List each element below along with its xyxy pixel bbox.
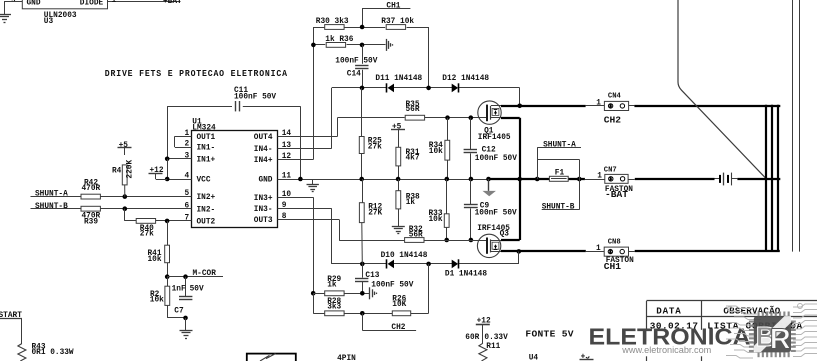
node R36 left (311, 43, 316, 48)
node F1 left (535, 177, 540, 182)
svg-text:C14: C14 (347, 70, 361, 78)
resistor R26 10K (392, 295, 410, 315)
svg-text:D11 1N4148: D11 1N4148 (375, 75, 422, 83)
svg-text:OUT2: OUT2 (197, 218, 216, 226)
resistor R37 10k (381, 18, 414, 29)
resistor R42 470R (81, 180, 101, 200)
svg-text:100nF 50V: 100nF 50V (335, 58, 377, 66)
node pin4/+12 (165, 177, 170, 182)
wire R29 line (313, 293, 370, 295)
net label M-COR (193, 270, 217, 278)
svg-text:6: 6 (185, 202, 190, 210)
wire R36 row (313, 44, 385, 46)
svg-text:DIODE: DIODE (80, 0, 104, 8)
logo chip traces (726, 304, 817, 359)
label 30.02.17 (650, 321, 699, 332)
resistor R33 10k (429, 179, 450, 227)
svg-text:470R: 470R (82, 185, 101, 193)
label -BAT (605, 189, 628, 200)
wire CN4 stubs (586, 105, 635, 107)
svg-text:1: 1 (112, 0, 117, 5)
svg-text:4k7: 4k7 (406, 155, 420, 163)
wire START down (21, 318, 23, 343)
node pin7/R41 (165, 219, 170, 224)
wire D12 down to CH2 line (519, 88, 521, 105)
svg-text:R4: R4 (112, 168, 122, 176)
svg-text:1k: 1k (406, 199, 416, 207)
svg-text:100nF 50V: 100nF 50V (475, 209, 517, 217)
ground (C13, sideways) (370, 287, 377, 299)
svg-text:-BAT: -BAT (605, 189, 628, 200)
svg-text:FONTE 5V: FONTE 5V (525, 329, 573, 340)
svg-text:3k3: 3k3 (327, 304, 341, 312)
node M-COR left (165, 274, 170, 279)
svg-text:U3: U3 (44, 18, 54, 26)
svg-text:VCC: VCC (197, 177, 211, 185)
logo chip legs (749, 312, 796, 358)
wire pin3 (167, 158, 191, 160)
resistor R43 0R1 0.33W (zigzag) (18, 344, 74, 361)
svg-text:+5: +5 (392, 124, 402, 132)
wire Q1 source (thick) (501, 118, 520, 179)
svg-text:27k: 27k (368, 144, 382, 152)
node R25/GND (359, 177, 364, 182)
net label SHUNT-B (35, 203, 68, 211)
wire CN7 stub (585, 179, 635, 181)
wire R25 bottom to GND line (361, 154, 363, 180)
resistor R32 56R (405, 226, 424, 242)
wire R37 right down to D11/D12 node (428, 27, 430, 88)
svg-text:IN4-: IN4- (254, 146, 273, 154)
ground (pin11) (307, 179, 319, 192)
label 4PIN (337, 355, 356, 361)
svg-text:100nF 50V: 100nF 50V (475, 155, 517, 163)
net label SHUNT-A (35, 191, 68, 199)
svg-text:3: 3 (185, 152, 190, 160)
U1 left pin numbers (185, 130, 190, 222)
svg-text:IN2-: IN2- (197, 206, 216, 214)
svg-text:SHUNT-A: SHUNT-A (35, 191, 68, 199)
capacitor C7 1nF 50V (172, 277, 204, 316)
logo chip square (754, 316, 791, 352)
node C7/R2 bottom (183, 316, 188, 321)
wire R26 up to D1 line (411, 264, 429, 314)
wire pin11 GND line (thin part) (278, 179, 488, 181)
logo background (585, 330, 752, 357)
node R12/C13/D10 (360, 262, 365, 267)
wire R28 to R26 (344, 313, 392, 315)
label LISTA CORRIGIDA (707, 321, 803, 332)
wire +5 to R31 (398, 130, 400, 147)
resistor R29 1k (325, 276, 344, 295)
wire CH2 stub (362, 313, 416, 330)
svg-text:R11: R11 (486, 343, 500, 351)
wire pin10 down (278, 197, 314, 293)
label U4 (529, 355, 539, 361)
node R31/GND (396, 177, 401, 182)
svg-text:IRF1405: IRF1405 (478, 134, 511, 142)
wire shunt loop (537, 148, 579, 210)
label OBSERVACAO (723, 306, 780, 317)
svg-text:R30 3k3: R30 3k3 (316, 18, 349, 26)
svg-text:1nF: 1nF (172, 285, 186, 293)
net label START (0, 312, 22, 320)
svg-text:SHUNT-B: SHUNT-B (542, 204, 575, 212)
diode D11 1N4148 (375, 75, 422, 92)
svg-text:56R: 56R (406, 106, 420, 114)
wire CN8 stub (586, 251, 635, 253)
ground (R38) (392, 227, 405, 234)
logo BR text (756, 321, 791, 355)
wire pin4 VCC (167, 179, 191, 181)
svg-text:50V: 50V (190, 285, 204, 293)
svg-text:0R1 0.33W: 0R1 0.33W (32, 349, 74, 357)
svg-text:IN2+: IN2+ (197, 194, 216, 202)
resistor R12 27K (359, 179, 382, 223)
wire pin14 to Q1 gate line (278, 118, 405, 137)
label FONTE 5V (525, 329, 573, 340)
node pin5/R44 (123, 194, 128, 199)
label FASTON (CN8) (606, 257, 634, 265)
svg-text:IN1+: IN1+ (197, 156, 216, 164)
svg-text:+BAT: +BAT (163, 0, 182, 6)
svg-text:CH1: CH1 (604, 261, 622, 272)
resistor R44 220K (112, 160, 134, 185)
svg-text:56R: 56R (409, 232, 423, 240)
svg-text:R37 10k: R37 10k (381, 18, 414, 26)
wire pin7 node down to R41 (167, 221, 169, 245)
IC U3 ULN2003 (partial, cut at top) (11, 0, 108, 26)
wire CH1 down to R30/R37 node (362, 8, 364, 27)
net label +12 (R11) (476, 318, 491, 326)
svg-text:CH2: CH2 (604, 115, 622, 126)
logo www text (621, 345, 711, 355)
svg-text:CN4: CN4 (608, 92, 622, 100)
battery symbol (715, 173, 738, 186)
wire off-page diagonal (678, 0, 767, 179)
svg-text:DATA: DATA (656, 306, 681, 317)
title block table (647, 301, 817, 361)
svg-text:100nF 50V: 100nF 50V (371, 282, 413, 290)
svg-text:OUT4: OUT4 (254, 134, 273, 142)
resistor R35 56R (405, 101, 424, 120)
wire C13 to R29 line (362, 282, 364, 294)
svg-text:U4: U4 (529, 355, 539, 361)
node R26/D10/D1 (426, 262, 431, 267)
svg-text:CN7: CN7 (604, 167, 617, 175)
node pin10/R29 (311, 291, 316, 296)
wire GND/-BAT line (thick) (488, 178, 780, 180)
node gnd stub (486, 177, 491, 182)
svg-text:+5: +5 (119, 142, 129, 150)
svg-text:IN3+: IN3+ (254, 195, 273, 203)
node C12/GND (469, 177, 474, 182)
svg-text:IN3-: IN3- (254, 206, 273, 214)
transistor Q1 IRF1405 (478, 101, 511, 142)
node C14/D11 junction (360, 86, 365, 91)
svg-text:27k: 27k (140, 231, 154, 239)
svg-text:M-COR: M-COR (193, 270, 217, 278)
resistor R2 10k (150, 277, 170, 306)
wire R44 to pin5 node (124, 185, 126, 197)
diode D1 1N4148 (445, 259, 487, 278)
op-amp U1 LM324 box (192, 119, 278, 228)
svg-text:GND: GND (258, 177, 272, 185)
svg-text:Q3: Q3 (500, 230, 510, 238)
title text (105, 68, 288, 79)
wire C11 left (167, 106, 232, 159)
svg-text:10K: 10K (392, 301, 406, 309)
connector CN8 (596, 239, 629, 257)
node C13/R29 (360, 291, 365, 296)
svg-text:9: 9 (11, 0, 16, 5)
net label CH1 (top) (362, 2, 410, 10)
resistor R40 27k (136, 219, 155, 239)
node D12/CH2 (517, 104, 522, 109)
fuse F1 (549, 170, 568, 182)
wire Q1 drain CH2 (thick) (501, 105, 586, 107)
svg-text:7: 7 (185, 214, 190, 222)
wire C9 to gate2 (470, 208, 472, 240)
svg-text:10k: 10k (429, 148, 443, 156)
wire +12 stub to VCC (156, 173, 168, 180)
svg-text:R39: R39 (84, 218, 98, 226)
wire C14 to D11/D12 line (362, 70, 364, 88)
wire +5 to R44 (124, 148, 126, 155)
svg-text:R: R (770, 323, 791, 355)
resistor R28 3k3 (325, 298, 344, 316)
capacitor C13 100nF 50V (355, 264, 414, 290)
wire pin9 down to D10 (278, 208, 332, 264)
wire down to ground (C7) (185, 318, 187, 330)
svg-text:F1: F1 (555, 170, 565, 178)
label CH1 (connector) (604, 261, 622, 272)
wire pin6 node down to R40 (125, 209, 137, 221)
resistor R41 10k (148, 245, 170, 264)
logo ELETRONICA text (589, 324, 751, 350)
wire M-COR line (167, 276, 223, 278)
wire R34 to GND line (447, 160, 449, 179)
capacitor C14 100nF 50V (335, 58, 377, 79)
wire R33 to gate2 (446, 227, 448, 240)
node gate/R34 (445, 115, 450, 120)
svg-text:D12 1N4148: D12 1N4148 (442, 75, 489, 83)
wire SHUNT-B to pin6 (31, 208, 192, 210)
wire Q3 source CH1 (thick) (501, 250, 586, 252)
ground (U3) (0, 15, 11, 23)
svg-text:C12: C12 (482, 146, 496, 154)
node pin3/C11 (165, 157, 170, 162)
svg-text:CH2: CH2 (391, 324, 405, 332)
resistor R38 1k (396, 179, 420, 209)
resistor R25 27k (359, 88, 382, 154)
ground (R36, sideways) (387, 39, 393, 51)
label FASTON (CN7) (605, 186, 633, 194)
wire pin1-pin2 feedback (175, 136, 192, 147)
wire R32 to Q3 gate (424, 240, 486, 242)
wire CN8 to bus (thick) (635, 250, 780, 252)
wire C12 to GND line (470, 153, 472, 179)
svg-text:C13: C13 (365, 272, 379, 280)
svg-text:C7: C7 (174, 308, 184, 316)
node pin6/R40 (123, 206, 128, 211)
net label +BAT (163, 0, 182, 6)
capacitor C9 100nF 50V (464, 179, 517, 217)
svg-text:10k: 10k (429, 216, 443, 224)
wire pin10 col to R28 (313, 293, 324, 313)
label CH2 (connector) (604, 115, 622, 126)
wire R38 to ground (398, 209, 400, 226)
wire +12 down to R11 (482, 324, 484, 343)
svg-text:OUT1: OUT1 (197, 134, 216, 142)
connector CN7 (597, 167, 628, 184)
wire U3 right pin to +BAT (108, 0, 181, 5)
svg-text:IN4+: IN4+ (254, 157, 273, 165)
wire R36 node down to C14 (362, 45, 364, 64)
svg-text:1: 1 (596, 99, 601, 107)
U1 left pin names (197, 134, 216, 226)
svg-text:1k: 1k (327, 282, 337, 290)
bus vertical 1 (thick) (765, 105, 767, 252)
svg-text:DRIVE FETS E PROTECAO ELETRONI: DRIVE FETS E PROTECAO ELETRONICA (105, 68, 288, 79)
node F1 right (577, 177, 582, 182)
wire D11/D12 line (332, 87, 520, 89)
net label +5 (R44) (118, 142, 132, 150)
U1 right pin numbers (282, 130, 292, 221)
wire R30 row (313, 27, 428, 29)
svg-text:10k: 10k (150, 297, 164, 305)
svg-text:CN8: CN8 (608, 239, 621, 247)
wire R2 bottom (167, 305, 185, 318)
wire D10/D1 line (332, 251, 519, 264)
svg-text:GND: GND (27, 0, 41, 8)
wire R12 to D10 line (361, 223, 364, 264)
wire pin12 (278, 159, 314, 161)
node R36 right / C14 top (360, 43, 365, 48)
label DATA (656, 306, 681, 317)
svg-text:100nF 50V: 100nF 50V (234, 94, 276, 102)
connector CN4 (596, 92, 628, 110)
wire R41 to M-COR (167, 263, 169, 277)
net label +12 (VCC) (149, 167, 164, 175)
svg-text:220K: 220K (126, 160, 134, 179)
wire Q3 drain (thick) (501, 179, 520, 240)
net label SHUNT-A (fuse) (537, 141, 581, 149)
wire CN4 to bus (thick) (634, 105, 780, 107)
wire pin13 to D11 (278, 148, 332, 150)
net label CH2 (stub) (391, 324, 405, 332)
node R37/D11/D12 junction (426, 86, 431, 91)
wire C11 col pin3 to pin4 (167, 159, 169, 179)
svg-text:60R: 60R (465, 334, 479, 342)
wire D11 line down to pin 13 (331, 88, 333, 148)
diode D12 1N4148 (442, 75, 489, 92)
node D1 riser/CH1 (517, 249, 522, 254)
wire SHUNT-A to pin5 (31, 196, 192, 198)
wire right edge vertical 1 (792, 0, 794, 252)
ground (C7/R2) (180, 331, 193, 339)
bus vertical 2 (thick) (771, 105, 773, 252)
wire U3 left pin to ground (4, 2, 22, 15)
svg-text:www.eletronicabr.com: www.eletronicabr.com (621, 345, 711, 355)
node C9/gate2 (469, 238, 474, 243)
svg-text:LM324: LM324 (192, 124, 216, 132)
wire R40 to pin7 (156, 220, 192, 222)
resistor R31 4k7 (396, 147, 420, 166)
node R33/gate2 (444, 238, 449, 243)
node R30/R37/CH1 (360, 25, 365, 30)
svg-text:1k R36: 1k R36 (325, 36, 353, 44)
node R34/GND (445, 177, 450, 182)
bus vertical 3 (thick) (777, 105, 779, 252)
capacitor C11 100nF 50V (234, 87, 276, 111)
node GND x300 (298, 177, 303, 182)
node R28/CH2 (360, 311, 365, 316)
svg-text:10k: 10k (148, 256, 162, 264)
node Q1/Q3 on -BAT (517, 177, 522, 182)
capacitor C12 100nF 50V (464, 118, 518, 164)
svg-text:27K: 27K (368, 210, 382, 218)
resistor R30 3k3 (316, 18, 349, 29)
connector 4PIN box (partial) (247, 354, 296, 361)
wire C11 right down to GND node (243, 106, 301, 179)
wire right edge vertical 2 (799, 0, 801, 252)
wire R35 to Q1 gate (425, 117, 486, 119)
transistor Q3 IRF1405 (477, 225, 510, 257)
net label +5 (R31) (391, 124, 405, 132)
U1 right pin names (254, 134, 273, 225)
svg-text:D1 1N4148: D1 1N4148 (445, 270, 487, 278)
svg-text:CH1: CH1 (386, 2, 400, 10)
svg-text:OUT3: OUT3 (254, 217, 273, 225)
svg-text:IN1-: IN1- (197, 145, 216, 153)
svg-text:0.33V: 0.33V (484, 334, 508, 342)
resistor R36 1k (325, 36, 353, 47)
diode D10 1N4148 (381, 252, 428, 269)
svg-text:D10 1N4148: D10 1N4148 (381, 252, 428, 260)
resistor R11 60R 0.33V (zigzag) (465, 334, 508, 361)
node gate/C12 (469, 115, 474, 120)
wire R31 to GND line (398, 166, 400, 179)
svg-text:4PIN: 4PIN (337, 355, 356, 361)
wire pin8 to R32 (278, 220, 405, 241)
svg-text:SHUNT-A: SHUNT-A (543, 141, 576, 149)
svg-text:SHUNT-B: SHUNT-B (35, 203, 68, 211)
net label +5 (bottom) (580, 354, 594, 361)
node M-COR / C7 (183, 274, 188, 279)
resistor R34 10k (429, 118, 450, 160)
ground (battery line, gray triangle) (483, 179, 496, 196)
wire left column x=313 (R30 to pin12) (313, 27, 315, 160)
resistor R39 470R (81, 206, 101, 226)
net label SHUNT-B (fuse) (542, 204, 580, 212)
